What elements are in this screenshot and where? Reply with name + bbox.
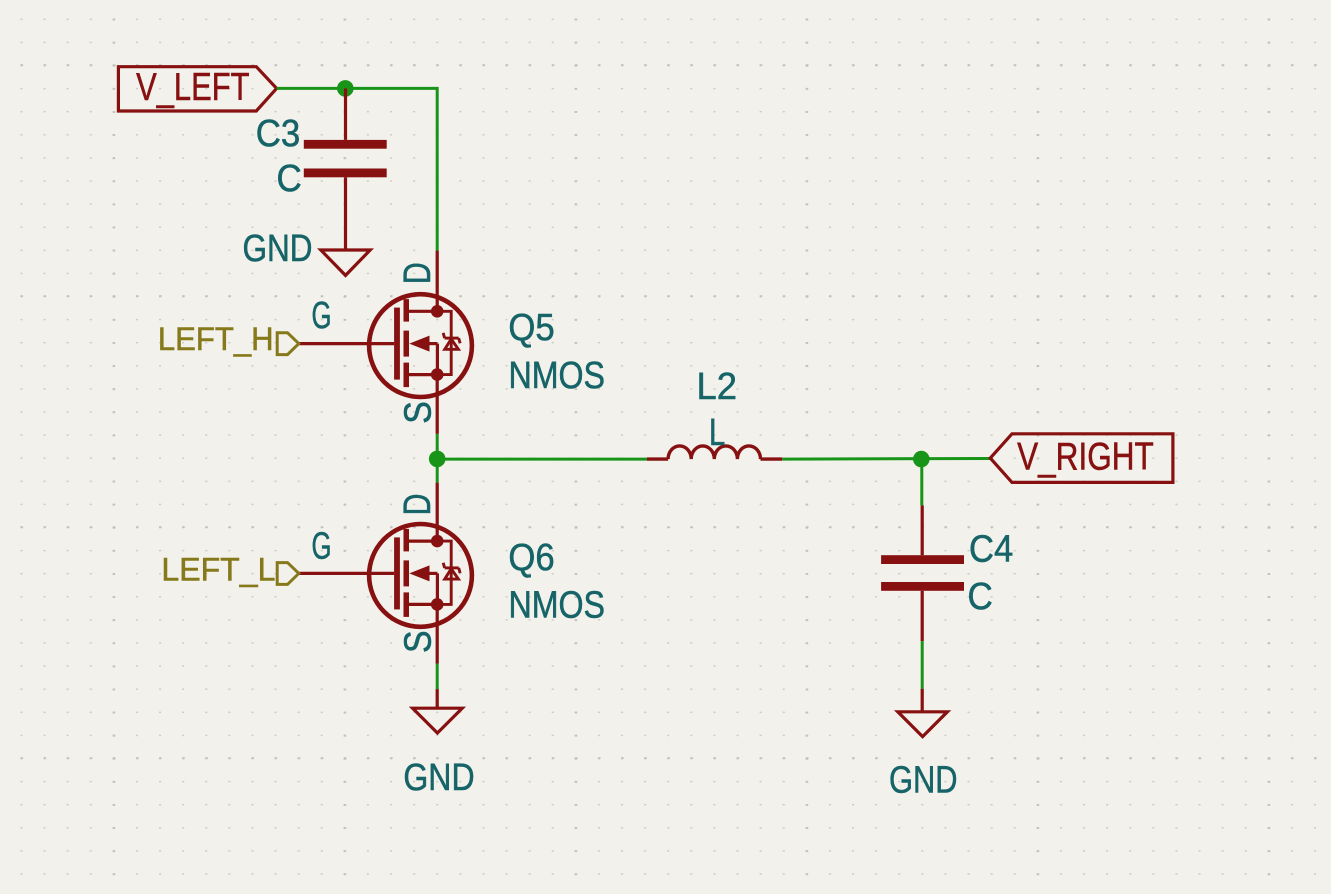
- svg-text:G: G: [312, 526, 332, 568]
- svg-text:S: S: [397, 630, 439, 653]
- svg-text:V_LEFT: V_LEFT: [136, 66, 249, 109]
- svg-text:GND: GND: [243, 228, 313, 270]
- svg-text:L2: L2: [697, 366, 738, 408]
- ground GND (C3): [321, 250, 370, 275]
- transistor Q6: [299, 483, 472, 664]
- wire node down to Q6: [436, 459, 439, 483]
- svg-text:C: C: [277, 158, 302, 200]
- svg-text:GND: GND: [889, 759, 958, 801]
- junction node SW: [429, 451, 446, 468]
- junction node V_RIGHT/C4: [913, 451, 930, 468]
- svg-text:S: S: [397, 401, 439, 424]
- svg-text:NMOS: NMOS: [509, 585, 606, 627]
- transistor Q5: [299, 251, 472, 434]
- global label V_LEFT: [118, 67, 276, 111]
- wire L2 to junction 2: [782, 457, 990, 461]
- svg-text:NMOS: NMOS: [509, 355, 606, 397]
- wire Q5 source to node: [436, 434, 439, 459]
- wire C4 to ground: [921, 641, 924, 689]
- svg-text:LEFT_H: LEFT_H: [158, 321, 274, 357]
- svg-text:D: D: [397, 494, 439, 516]
- svg-text:D: D: [397, 262, 439, 284]
- svg-text:Q6: Q6: [508, 537, 554, 579]
- svg-text:C4: C4: [969, 529, 1013, 571]
- junction node V_LEFT/C3: [337, 80, 354, 97]
- wire junction 2 down to C4: [920, 459, 923, 505]
- svg-text:V_RIGHT: V_RIGHT: [1017, 436, 1154, 479]
- svg-text:Q5: Q5: [508, 307, 554, 349]
- svg-text:LEFT_L: LEFT_L: [161, 552, 275, 588]
- wire Q6 source to ground: [436, 664, 439, 690]
- svg-text:G: G: [312, 295, 332, 337]
- capacitor C4: [881, 505, 964, 641]
- wire V_LEFT to corner: [277, 88, 438, 250]
- ground GND (C4): [898, 689, 948, 737]
- wire node to L2: [437, 458, 647, 461]
- svg-text:C: C: [968, 576, 993, 618]
- capacitor C3: [304, 88, 387, 250]
- global label V_RIGHT: [990, 434, 1173, 483]
- svg-text:L: L: [709, 412, 725, 454]
- ground GND (Q6): [413, 689, 463, 733]
- svg-text:GND: GND: [403, 757, 474, 799]
- inductor L2: [647, 446, 782, 459]
- svg-text:C3: C3: [256, 113, 300, 155]
